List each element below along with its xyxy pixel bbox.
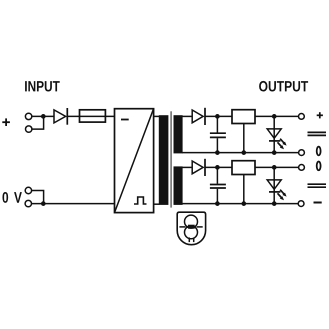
junction input +: [41, 114, 46, 119]
wire diode D2 to regulator: [205, 115, 232, 117]
junction capacitor C1 bottom: [215, 150, 220, 155]
transformer T1 secondary winding 1: [174, 115, 183, 153]
wire diode to fuse to converter: [67, 115, 114, 117]
wire converter to primary bottom: [154, 203, 160, 205]
terminal X1.2 input + lower: [26, 126, 32, 132]
terminal X1.3 input 0V upper: [25, 187, 31, 193]
label OUTPUT: [259, 81, 308, 92]
DC symbol channel 1: [308, 132, 327, 135]
wire secondary1 top to diode D2: [182, 115, 192, 117]
wire input 0V main: [32, 203, 115, 205]
safety isolating transformer symbol enclosure: [177, 212, 205, 245]
label + (input polarity): [2, 118, 10, 126]
transformer T1 primary winding: [159, 115, 169, 205]
label 0 channel 1: [317, 147, 321, 156]
junction LED V1 top: [272, 114, 277, 119]
wire channel 2 minus rail: [182, 203, 299, 205]
junction capacitor C2 bottom: [215, 201, 220, 206]
junction LED V1 bottom: [272, 150, 277, 155]
wire converter to primary top: [154, 115, 160, 117]
converter U1 minus marking: [121, 119, 129, 121]
label 0 channel 2: [317, 162, 321, 171]
regulator A2 channel 2: [232, 161, 255, 204]
junction regulator A1 ground: [241, 150, 246, 155]
wire regulator A1 to terminal +: [255, 115, 299, 117]
DC symbol channel 2: [308, 184, 327, 187]
junction regulator A2 ground: [241, 201, 246, 206]
terminal X2.3 output 0 channel 2: [299, 165, 305, 171]
diode D1 input series: [54, 108, 67, 125]
junction capacitor C2 top: [215, 165, 220, 170]
wire regulator A2 to terminal 0: [255, 166, 299, 168]
wire input + lower terminal to junction: [32, 116, 44, 129]
safety transformer symbol core dashes: [179, 226, 202, 228]
wire input + main: [32, 115, 54, 117]
terminal X2.1 output +: [299, 114, 305, 120]
junction capacitor C1 top: [215, 114, 220, 119]
converter U1 pulse marking: [134, 197, 147, 204]
diode D3 rectifier channel 2: [192, 159, 205, 176]
terminal X2.4 output minus: [298, 201, 304, 207]
capacitor C2: [210, 167, 226, 203]
fuse F1: [80, 110, 106, 122]
safety transformer symbol upper winding: [185, 215, 198, 228]
LED V2 channel 2: [267, 167, 281, 203]
LED V1 channel 1: [267, 116, 281, 152]
label minus (output): [314, 202, 322, 204]
wire input 0V upper terminal to junction: [32, 191, 44, 204]
capacitor C1: [210, 116, 226, 152]
wire diode D3 to regulator: [205, 166, 232, 168]
transformer T1 core: [170, 111, 172, 207]
label INPUT: [25, 81, 60, 91]
terminal X1.4 input 0V lower: [25, 200, 31, 206]
LED V1 light arrows: [278, 139, 287, 150]
junction input 0V: [41, 201, 46, 206]
converter U1 DC/DC chopper block: [115, 109, 154, 213]
wire secondary2 top to diode D3: [182, 166, 192, 168]
terminal X2.2 output 0 channel 1: [299, 150, 305, 156]
terminal X1.1 input + upper: [25, 113, 31, 119]
transformer T1 secondary winding 2: [174, 166, 183, 205]
junction LED V2 top: [272, 165, 277, 170]
junction LED V2 bottom: [272, 201, 277, 206]
label 0V (input): [2, 192, 21, 203]
safety transformer symbol legs: [189, 238, 193, 243]
safety transformer symbol lower winding: [185, 226, 198, 239]
wire channel 1 0V rail: [182, 152, 299, 154]
regulator A1 channel 1: [232, 110, 255, 153]
LED V2 light arrows: [278, 190, 287, 201]
label + (output): [317, 112, 323, 118]
safety transformer symbol center block: [188, 225, 195, 229]
diode D2 rectifier channel 1: [192, 108, 205, 125]
